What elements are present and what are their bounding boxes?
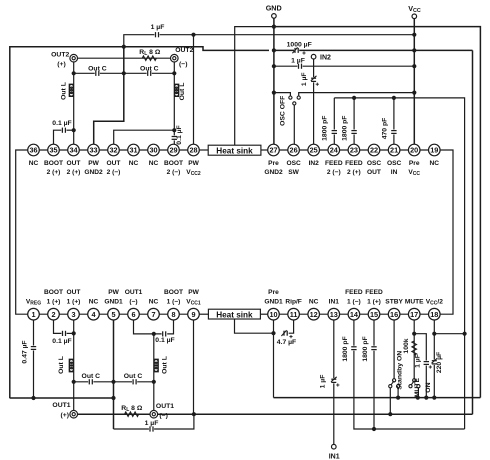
pin 2 (48, 308, 60, 320)
junction at 273.5,333.2 (271, 331, 275, 335)
svg-text:PW: PW (188, 289, 199, 296)
wire VCC/2 reference line (434, 333, 464, 335)
svg-text:33: 33 (89, 146, 97, 155)
terminal OUT1(+) (70, 410, 78, 418)
resistor RL 8ohm bottom (125, 412, 139, 416)
svg-text:17: 17 (410, 310, 418, 319)
capacitor 1uF decouple (297, 65, 302, 67)
capacitor 0.1uF bottom-right boot (162, 333, 167, 335)
svg-text:Out C: Out C (88, 66, 107, 73)
svg-text:(+): (+) (61, 412, 70, 419)
wire bottom pin row right bus (274, 313, 435, 315)
wire pin 3 OUT1(+) vertical (73, 320, 75, 411)
svg-text:FEED: FEED (365, 289, 383, 296)
svg-text:2 (−): 2 (−) (167, 169, 181, 176)
svg-text:36: 36 (29, 146, 37, 155)
svg-text:OSC OFF: OSC OFF (280, 96, 287, 126)
junction at 414.3,66.2 (412, 64, 416, 68)
svg-text:1800 pF: 1800 pF (362, 336, 369, 361)
svg-text:OUT: OUT (67, 289, 81, 296)
svg-text:1 (+): 1 (+) (47, 299, 61, 306)
junction at 464.6,333.7 (463, 332, 467, 336)
pin 26 (288, 144, 300, 156)
wire pin 16 STBY vertical (393, 320, 395, 379)
svg-text:Out C: Out C (140, 66, 159, 73)
wire pin 2 boot stub (54, 320, 63, 334)
svg-text:RL 8 Ω: RL 8 Ω (139, 49, 161, 57)
junction at 414.3,50.4 (412, 48, 416, 52)
pin 7 (148, 308, 160, 320)
pin 10 (268, 308, 280, 320)
wire 1000uF line GND-VCC (274, 49, 473, 51)
junction at 434.3,397.6 (432, 396, 436, 400)
svg-text:2: 2 (51, 310, 55, 319)
svg-text:PW: PW (88, 160, 99, 167)
junction at 273.9,50.4 (272, 48, 276, 52)
junction at 113.5,398 (111, 396, 115, 400)
svg-text:9: 9 (191, 310, 195, 319)
svg-text:3: 3 (71, 310, 75, 319)
terminal OUT1(-) (150, 410, 158, 418)
svg-text:VCC1: VCC1 (186, 299, 201, 307)
pin 12 (308, 308, 320, 320)
junction at 434.3,333.7 (432, 332, 436, 336)
capacitor Out C bottom-left (88, 381, 93, 383)
svg-text:27: 27 (269, 146, 277, 155)
capacitor 1800pF pin14 (353, 346, 355, 351)
svg-text:2 (+): 2 (+) (67, 169, 81, 176)
capacitor 1uF mute (425, 361, 427, 366)
svg-text:19: 19 (430, 146, 438, 155)
wire pin33 PW GND2 net vertical with jog (94, 47, 124, 145)
junction at 414.2,333.7 (412, 332, 416, 336)
svg-text:Heat sink: Heat sink (216, 311, 253, 320)
wire GND top rail thin segment (235, 26, 274, 28)
svg-text:(−): (−) (159, 412, 168, 419)
svg-text:0.1 µF: 0.1 µF (52, 338, 71, 345)
svg-text:OSC: OSC (367, 160, 382, 167)
svg-text:29: 29 (169, 146, 177, 155)
svg-text:FEED: FEED (345, 160, 363, 167)
pin 14 (348, 308, 360, 320)
wire GND terminal to pin 27 (273, 19, 275, 145)
capacitor Out C bottom-right (132, 381, 137, 383)
svg-text:OUT: OUT (367, 169, 381, 176)
capacitor 1uF IN1 (333, 378, 335, 383)
inductor Out L bottom-left (69, 359, 73, 371)
svg-text:GND2: GND2 (84, 169, 103, 176)
wire mute throw stub (417, 388, 419, 398)
terminal VCC (412, 14, 417, 19)
svg-text:4.7 µF: 4.7 µF (277, 339, 296, 346)
junction at 123.8,73.3 (122, 71, 126, 75)
junction at 273.9,66.2 (272, 64, 276, 68)
wire pin 8 boot stub (167, 320, 173, 334)
wire pin 19 to pin 18 bracket (434, 150, 453, 314)
inductor Out L bottom-right (154, 359, 158, 371)
wire GND top rail to right edge (274, 27, 481, 398)
wire top pin row left bus (34, 149, 194, 151)
svg-text:13: 13 (330, 310, 338, 319)
terminal OUT2(-) (171, 54, 179, 62)
wire pin 1 to 0.47uF to GND (33, 320, 35, 398)
wire 1uF top line (124, 35, 415, 47)
wire VCC right vertical (472, 50, 474, 414)
svg-text:BOOT: BOOT (44, 289, 63, 296)
svg-text:OUT1: OUT1 (125, 289, 143, 296)
svg-text:Out C: Out C (124, 373, 143, 380)
svg-text:1800 pF: 1800 pF (322, 116, 329, 141)
capacitor 0.47uF (32, 346, 34, 351)
svg-text:PW: PW (108, 289, 119, 296)
svg-text:12: 12 (310, 310, 318, 319)
switch OSC OFF (289, 96, 292, 99)
pin 20 (408, 144, 420, 156)
wire pin 18 VCC/2 vertical (433, 320, 435, 398)
svg-text:OSC: OSC (387, 160, 402, 167)
wire OUT1(-) vertical (153, 334, 155, 411)
wire heat sink to pin 27 (261, 149, 274, 151)
pin 13 (328, 308, 340, 320)
junction at 123.8,46.7 (122, 45, 126, 49)
pin 22 (368, 144, 380, 156)
svg-text:1800 pF: 1800 pF (342, 336, 349, 361)
wire GND outer frame left vertical (9, 46, 11, 398)
svg-text:IN1: IN1 (329, 454, 340, 460)
wire OSC feedback top line (334, 98, 464, 429)
junction at 393.9,97.9 (392, 96, 396, 100)
svg-text:Out L: Out L (61, 82, 68, 100)
pin 17 (408, 308, 420, 320)
svg-text:(+): (+) (57, 61, 66, 68)
heat sink bottom box (208, 309, 260, 319)
svg-text:(−): (−) (129, 299, 137, 306)
terminal OUT2(+) (70, 54, 78, 62)
svg-text:BOOT: BOOT (164, 289, 183, 296)
svg-text:IN1: IN1 (329, 299, 340, 306)
terminal IN1 (332, 444, 337, 449)
pin 5 (108, 308, 120, 320)
capacitor 4.7uF (283, 332, 288, 334)
wire pin 14 feed vertical (354, 320, 465, 429)
svg-text:28: 28 (189, 146, 197, 155)
junction at 354.1,97.9 (352, 96, 356, 100)
wire pin 35 boot stub (54, 130, 63, 144)
wire mute 1uF branch (414, 334, 426, 398)
pin 28 (188, 144, 200, 156)
junction at 33.5,398 (31, 396, 35, 400)
svg-text:MUTE: MUTE (414, 378, 421, 398)
wire pin 6 stub (134, 320, 163, 334)
svg-text:OUT1: OUT1 (52, 402, 70, 409)
svg-text:16: 16 (390, 310, 398, 319)
svg-text:1 µF: 1 µF (291, 58, 305, 65)
svg-text:30: 30 (149, 146, 157, 155)
capacitor 470pF pin21 (393, 130, 395, 135)
svg-text:1 µF: 1 µF (320, 375, 327, 389)
wire GND bottom-right line (274, 397, 481, 399)
svg-text:Pre: Pre (409, 160, 420, 167)
svg-text:25: 25 (310, 146, 318, 155)
svg-text:Out L: Out L (58, 356, 65, 374)
pin 29 (168, 144, 180, 156)
svg-text:BOOT: BOOT (44, 160, 63, 167)
svg-text:Out C: Out C (82, 373, 101, 380)
pin 35 (48, 144, 60, 156)
junction at 153.8,381.8 (152, 380, 156, 384)
svg-text:26: 26 (290, 146, 298, 155)
junction at 73.7,381.8 (72, 380, 76, 384)
pin 15 (368, 308, 380, 320)
junction at 174.3,130.2 (172, 128, 176, 132)
svg-text:VCC: VCC (408, 169, 420, 177)
svg-text:GND1: GND1 (264, 299, 283, 306)
wire 1800pF pin23 vertical (353, 98, 355, 145)
svg-text:OSC: OSC (286, 160, 301, 167)
svg-text:11: 11 (290, 310, 298, 319)
wire bottom 1uF line (114, 414, 194, 429)
pin 25 (308, 144, 320, 156)
svg-text:35: 35 (49, 146, 57, 155)
wire OUT2 line (74, 57, 175, 59)
svg-text:IN: IN (391, 169, 398, 176)
junction at 73.7,73.3 (72, 71, 76, 75)
capacitor 0.1uF top-left boot (61, 129, 66, 131)
svg-text:GND: GND (266, 3, 282, 12)
capacitor 1uF bottom (149, 428, 154, 430)
wire boot cap to pin 29 (173, 139, 175, 144)
svg-text:GND1: GND1 (104, 299, 123, 306)
wire pin 9 VCC1 stub (193, 320, 195, 414)
pin 6 (128, 308, 140, 320)
junction at 73.7,130.2 (72, 128, 76, 132)
wire pin 32 to OUT2(-) node (114, 130, 175, 144)
wire boot cap to pin34 vertical (66, 129, 74, 131)
svg-text:0.1 µF: 0.1 µF (52, 120, 71, 127)
svg-text:14: 14 (350, 310, 359, 319)
capacitor Out C top-left (95, 72, 100, 74)
svg-text:OUT: OUT (107, 160, 121, 167)
svg-text:NC: NC (129, 160, 139, 167)
svg-text:NC: NC (149, 299, 159, 306)
svg-text:(−): (−) (179, 61, 188, 68)
svg-text:1000 µF: 1000 µF (287, 42, 312, 49)
junction at 398.1,397.6 (396, 396, 400, 400)
pin 23 (348, 144, 360, 156)
wire standby throw to VCC1 line (389, 388, 391, 414)
svg-text:MUTE: MUTE (405, 299, 424, 306)
svg-text:Rip/F: Rip/F (285, 299, 301, 306)
wire OSC SW common to pin 26 (293, 105, 295, 145)
junction at 414.3,92.6 (412, 91, 416, 95)
terminal IN2 (311, 54, 316, 59)
svg-text:NC: NC (89, 299, 99, 306)
junction at 193.9,414.2 (192, 412, 196, 416)
svg-text:OUT: OUT (67, 160, 81, 167)
svg-text:FEED: FEED (325, 160, 343, 167)
svg-text:2 (−): 2 (−) (327, 169, 341, 176)
capacitor 1800pF pin23 (353, 130, 355, 135)
svg-text:Pre: Pre (268, 160, 279, 167)
junction at 73.7,333.4 (72, 331, 76, 335)
svg-text:Heat sink: Heat sink (216, 147, 253, 156)
wire OUT2(-) vertical (173, 58, 175, 136)
wire pin 17 MUTE vertical (413, 320, 415, 379)
wire bottom pin row left bus (34, 313, 194, 315)
pin 33 (88, 144, 100, 156)
pin 32 (108, 144, 120, 156)
svg-text:0.1 µF: 0.1 µF (176, 125, 183, 144)
wire pin 36 to pin 1 bracket (16, 150, 34, 314)
svg-text:ON: ON (425, 382, 432, 392)
wire 470pF pin21 vertical (393, 98, 395, 145)
capacitor 0.1uF bottom-left boot (61, 332, 66, 334)
svg-text:NC: NC (309, 299, 319, 306)
svg-text:20: 20 (410, 146, 418, 155)
pin 34 (68, 144, 80, 156)
wire pin 10 Pre GND1 vertical (273, 320, 275, 398)
wire VCC terminal to pin 20 (413, 19, 415, 145)
svg-text:23: 23 (350, 146, 358, 155)
junction at 193.5,34.7 (191, 33, 195, 37)
resistor 100k (412, 341, 416, 355)
pin 24 (328, 144, 340, 156)
svg-text:OUT2: OUT2 (51, 51, 69, 58)
terminal GND (272, 14, 277, 19)
junction at 273.9,26.6 (272, 25, 276, 29)
wire IN2 to pin 25 (313, 59, 315, 144)
wire GND heat-sink drop (234, 26, 236, 145)
switch Standby (393, 379, 396, 382)
svg-text:31: 31 (129, 146, 137, 155)
pin 27 (268, 144, 280, 156)
resistor RL 8ohm top (142, 56, 156, 60)
wire top pin row link to heat sink (194, 149, 209, 151)
wire 1800pF pin24 vertical (333, 98, 335, 145)
svg-text:15: 15 (370, 310, 378, 319)
capacitor Out C top-right (147, 72, 152, 74)
junction at 374.0,429.0 (372, 427, 376, 431)
wire Out C bottom line (74, 381, 154, 383)
svg-text:2 (−): 2 (−) (107, 169, 121, 176)
wire standby second throw stub (397, 388, 399, 398)
wire pin 28 VCC2 vertical (193, 35, 195, 145)
pin 16 (388, 308, 400, 320)
pin 30 (148, 144, 160, 156)
svg-text:1800 pF: 1800 pF (342, 116, 349, 141)
inductor Out L top-right (174, 84, 178, 96)
capacitor 1800pF pin24 (333, 130, 335, 135)
wire OUT1 line (74, 413, 473, 415)
svg-text:IN2: IN2 (309, 160, 320, 167)
svg-text:IN2: IN2 (320, 54, 331, 61)
svg-text:SW: SW (288, 169, 299, 176)
svg-text:OUT1: OUT1 (156, 403, 174, 410)
junction at 417.8,397.6 (416, 396, 420, 400)
svg-text:2 (+): 2 (+) (47, 169, 61, 176)
wire 1uF decouple line (274, 65, 414, 67)
svg-text:OUT2: OUT2 (175, 47, 193, 54)
svg-text:1 (−): 1 (−) (347, 299, 361, 306)
svg-text:1 (+): 1 (+) (367, 299, 381, 306)
pin 1 (28, 308, 40, 320)
capacitor 1uF top (154, 34, 159, 36)
capacitor 1uF IN2 (312, 77, 314, 82)
svg-text:32: 32 (109, 146, 117, 155)
wire heat sink to pin 10 (260, 313, 273, 315)
wire boot cap to pin 3 vertical (66, 332, 74, 334)
svg-text:NC: NC (29, 160, 39, 167)
junction at 153.8,333.9 (152, 332, 156, 336)
wire OUT2(+) to pin 34 (73, 58, 75, 144)
svg-text:0.1 µF: 0.1 µF (155, 337, 174, 344)
switch MUTE (413, 379, 416, 382)
svg-text:VCC/2: VCC/2 (426, 299, 443, 307)
junction at 426.3,397.6 (424, 396, 428, 400)
pin 19 (429, 144, 441, 156)
wire bottom row link to heat sink (194, 313, 209, 315)
svg-text:1 µF: 1 µF (415, 354, 422, 368)
svg-text:Out L: Out L (162, 356, 169, 374)
junction at 273.9,92.6 (272, 91, 276, 95)
capacitor 220uF (433, 360, 435, 365)
svg-text:2 (+): 2 (+) (347, 169, 361, 176)
pin 18 (429, 308, 441, 320)
pin 36 (28, 144, 40, 156)
svg-text:6: 6 (131, 310, 135, 319)
svg-text:STBY: STBY (385, 299, 403, 306)
inductor Out L top-left (69, 84, 73, 96)
wire GND frame top line with step (10, 47, 269, 51)
wire GND bottom-left segment (10, 397, 115, 399)
svg-text:VCC2: VCC2 (186, 169, 201, 177)
svg-text:220 µF: 220 µF (436, 352, 443, 373)
svg-text:100k: 100k (403, 338, 410, 353)
wire pin 5 PW GND1 vertical (113, 320, 115, 429)
svg-text:Out L: Out L (179, 83, 186, 101)
svg-text:34: 34 (69, 146, 78, 155)
svg-text:BOOT: BOOT (164, 160, 183, 167)
capacitor 1800pF pin15 (373, 346, 375, 351)
heat sink top box (208, 145, 261, 155)
svg-text:1 µF: 1 µF (151, 24, 165, 31)
svg-text:1: 1 (31, 310, 35, 319)
wire bottom heat sink stub (235, 319, 275, 333)
svg-text:VREG: VREG (26, 299, 41, 307)
junction at 414.3,34.7 (412, 33, 416, 37)
svg-text:NC: NC (430, 160, 440, 167)
wire pin 13 IN1 vertical (333, 320, 335, 444)
svg-text:FEED: FEED (345, 289, 363, 296)
svg-text:1 µF: 1 µF (301, 72, 308, 86)
svg-text:8: 8 (171, 310, 175, 319)
svg-text:NC: NC (149, 160, 159, 167)
svg-text:10: 10 (269, 310, 277, 319)
pin 8 (168, 308, 180, 320)
svg-text:7: 7 (151, 310, 155, 319)
svg-text:GND2: GND2 (264, 169, 283, 176)
svg-text:1 µF: 1 µF (145, 420, 159, 427)
wire pin 15 feed vertical (373, 320, 375, 429)
pin 9 (188, 308, 200, 320)
svg-text:24: 24 (330, 146, 339, 155)
svg-text:0.47 µF: 0.47 µF (21, 340, 28, 363)
wire OSC OFF line right (299, 93, 415, 96)
svg-text:18: 18 (430, 310, 438, 319)
svg-text:21: 21 (390, 146, 398, 155)
wire top pin row right bus (274, 149, 435, 151)
junction at 390.3,414.2 (388, 412, 392, 416)
